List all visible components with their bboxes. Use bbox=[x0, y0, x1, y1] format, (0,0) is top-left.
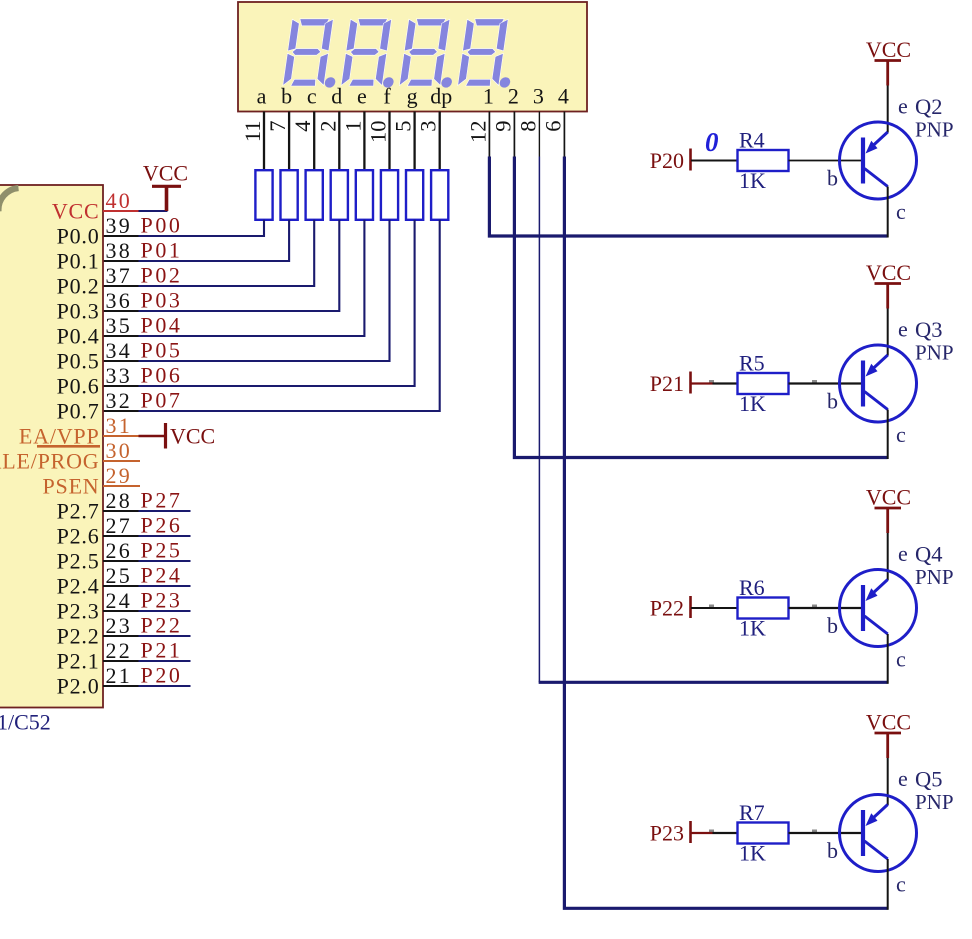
svg-text:e: e bbox=[898, 766, 908, 791]
labels e Q4 PNP b c bbox=[827, 541, 954, 672]
svg-text:P03: P03 bbox=[141, 288, 183, 313]
svg-text:1/C52: 1/C52 bbox=[0, 710, 51, 735]
svg-text:8: 8 bbox=[515, 121, 540, 132]
svg-text:b: b bbox=[827, 613, 838, 638]
wire P20 to R4 bbox=[691, 160, 738, 162]
VCC power symbol (EA/VPP) bbox=[166, 423, 216, 449]
svg-text:2: 2 bbox=[508, 84, 519, 109]
display pin numbers 11 7 4 2 1 10 5 3 (rotated) bbox=[240, 121, 441, 144]
net labels P00-P07 bbox=[141, 213, 183, 413]
display digit-select pin labels 1-4 bbox=[483, 84, 569, 109]
resistor R5 1K bbox=[738, 351, 789, 417]
svg-text:Q5: Q5 bbox=[915, 767, 943, 792]
svg-text:P0.0: P0.0 bbox=[57, 223, 100, 248]
MCU pin numbers 40-21 bbox=[106, 188, 132, 688]
svg-text:P0.1: P0.1 bbox=[57, 248, 100, 273]
svg-text:VCC: VCC bbox=[866, 485, 911, 510]
svg-text:P05: P05 bbox=[141, 338, 183, 363]
svg-text:Q2: Q2 bbox=[915, 94, 943, 119]
svg-text:P20: P20 bbox=[141, 663, 183, 688]
grey state marks bbox=[709, 605, 817, 608]
svg-text:dp: dp bbox=[430, 84, 452, 109]
svg-text:P24: P24 bbox=[141, 563, 183, 588]
svg-text:a: a bbox=[257, 84, 267, 109]
svg-text:5: 5 bbox=[391, 121, 416, 132]
resistor array (8 segment resistors) bbox=[255, 170, 448, 220]
svg-text:PNP: PNP bbox=[915, 790, 954, 814]
net labels P27-P20 bbox=[141, 488, 183, 688]
labels e Q3 PNP b c bbox=[827, 317, 954, 448]
display digit 3 (8.) bbox=[399, 19, 461, 88]
svg-text:23: 23 bbox=[106, 613, 132, 638]
wire: display pin 6 to Q5 collector bus bbox=[564, 112, 887, 909]
svg-text:34: 34 bbox=[106, 338, 132, 363]
svg-text:R4: R4 bbox=[739, 128, 765, 153]
svg-text:R6: R6 bbox=[739, 575, 765, 600]
P2.7-P2.0 pin stub wires bbox=[103, 511, 191, 686]
wire Q3 collector to bus bbox=[887, 410, 889, 460]
labels e Q2 PNP b c bbox=[827, 94, 954, 225]
wire: display pin 12 to Q2 collector bus bbox=[489, 112, 887, 237]
svg-text:P25: P25 bbox=[141, 538, 183, 563]
VCC power symbol (Q2 emitter) bbox=[866, 37, 911, 86]
svg-text:4: 4 bbox=[558, 84, 569, 109]
grey state marks bbox=[709, 830, 817, 833]
svg-text:P2.1: P2.1 bbox=[57, 648, 100, 673]
svg-text:P21: P21 bbox=[650, 371, 684, 396]
svg-text:11: 11 bbox=[240, 121, 265, 143]
port P21 bbox=[650, 371, 691, 396]
wires: resistor bottoms to P0.0-P0.7 pins bbox=[103, 220, 440, 411]
svg-text:P0.7: P0.7 bbox=[57, 398, 100, 423]
wire VCC to Q3 emitter bbox=[887, 309, 889, 356]
wire P23 to R7 bbox=[691, 832, 738, 834]
svg-text:0: 0 bbox=[705, 127, 719, 157]
svg-text:4: 4 bbox=[290, 121, 315, 132]
wire R6 to Q4 base bbox=[789, 607, 864, 609]
svg-text:P00: P00 bbox=[141, 213, 183, 238]
svg-text:b: b bbox=[281, 84, 292, 109]
svg-text:f: f bbox=[383, 84, 391, 109]
transistor Q2 PNP bbox=[840, 122, 917, 199]
svg-text:P2.0: P2.0 bbox=[57, 673, 100, 698]
svg-text:P04: P04 bbox=[141, 313, 183, 338]
svg-text:31: 31 bbox=[106, 413, 132, 438]
svg-text:PNP: PNP bbox=[915, 565, 954, 589]
svg-text:26: 26 bbox=[106, 538, 132, 563]
MCU corner arc marker bbox=[0, 188, 18, 212]
svg-text:PNP: PNP bbox=[915, 341, 954, 365]
wire Q4 collector to bus bbox=[887, 634, 889, 684]
port P22 bbox=[650, 596, 691, 621]
svg-text:c: c bbox=[307, 84, 317, 109]
logic state 0 annotation bbox=[705, 127, 719, 157]
grey state marks bbox=[709, 380, 817, 383]
wire VCC to Q4 emitter bbox=[887, 533, 889, 580]
VCC power symbol (Q5 emitter) bbox=[866, 710, 911, 759]
display digit 2 (8.) bbox=[341, 19, 403, 88]
display digit 4 (8.) bbox=[457, 19, 519, 88]
svg-text:27: 27 bbox=[106, 513, 132, 538]
svg-text:R5: R5 bbox=[739, 351, 765, 376]
svg-text:P2.6: P2.6 bbox=[57, 523, 100, 548]
svg-text:ALE/PROG: ALE/PROG bbox=[0, 448, 100, 473]
svg-text:39: 39 bbox=[106, 213, 132, 238]
svg-text:e: e bbox=[898, 317, 908, 342]
svg-text:9: 9 bbox=[490, 121, 515, 132]
wire P21 to R5 bbox=[691, 382, 738, 384]
svg-text:P2.7: P2.7 bbox=[57, 498, 100, 523]
wire: display pin 9 to Q3 collector bus bbox=[514, 112, 887, 458]
svg-text:b: b bbox=[827, 838, 838, 863]
svg-text:P2.3: P2.3 bbox=[57, 598, 100, 623]
svg-text:P21: P21 bbox=[141, 638, 183, 663]
svg-text:d: d bbox=[331, 84, 342, 109]
svg-text:P2.5: P2.5 bbox=[57, 548, 100, 573]
pin30 stub bbox=[103, 460, 140, 462]
wire P22 to R6 bbox=[691, 607, 738, 609]
svg-text:P0.6: P0.6 bbox=[57, 373, 100, 398]
MCU U1 (AT89C51/C52) body, partially off-canvas bbox=[0, 185, 103, 708]
labels e Q5 PNP b c bbox=[827, 766, 954, 897]
svg-text:VCC: VCC bbox=[143, 161, 188, 186]
wire: display pin 8 to Q4 collector bus (thin vertical) bbox=[539, 112, 888, 683]
svg-text:b: b bbox=[827, 389, 838, 414]
svg-text:VCC: VCC bbox=[866, 710, 911, 735]
transistor Q4 PNP bbox=[840, 570, 917, 647]
svg-text:P26: P26 bbox=[141, 513, 183, 538]
svg-text:1: 1 bbox=[483, 84, 494, 109]
svg-text:10: 10 bbox=[366, 121, 391, 144]
svg-text:P01: P01 bbox=[141, 238, 183, 263]
VCC power symbol (Q3 emitter) bbox=[866, 260, 911, 309]
svg-text:P22: P22 bbox=[141, 613, 183, 638]
svg-text:c: c bbox=[896, 199, 906, 224]
svg-text:1K: 1K bbox=[739, 168, 766, 193]
wire pin40 to VCC bbox=[103, 210, 168, 212]
svg-text:1: 1 bbox=[340, 121, 365, 132]
display segment pin letters a-dp bbox=[257, 84, 453, 109]
svg-text:33: 33 bbox=[106, 363, 132, 388]
svg-text:30: 30 bbox=[106, 438, 132, 463]
svg-text:29: 29 bbox=[106, 463, 132, 488]
resistor R4 1K bbox=[738, 128, 789, 194]
svg-text:1K: 1K bbox=[739, 391, 766, 416]
svg-text:40: 40 bbox=[106, 188, 132, 213]
wire R4 to Q2 base bbox=[789, 160, 864, 162]
svg-text:VCC: VCC bbox=[866, 260, 911, 285]
svg-text:c: c bbox=[896, 872, 906, 897]
svg-text:VCC: VCC bbox=[170, 424, 215, 449]
svg-text:P23: P23 bbox=[650, 821, 684, 846]
svg-text:35: 35 bbox=[106, 313, 132, 338]
display pin numbers 12 9 8 6 (rotated) bbox=[465, 121, 565, 144]
svg-text:P07: P07 bbox=[141, 388, 183, 413]
svg-text:EA/VPP: EA/VPP bbox=[19, 423, 100, 448]
resistor R7 1K bbox=[738, 800, 789, 866]
svg-text:12: 12 bbox=[465, 121, 490, 144]
svg-text:36: 36 bbox=[106, 288, 132, 313]
svg-text:b: b bbox=[827, 166, 838, 191]
wire VCC to Q5 emitter bbox=[887, 758, 889, 805]
MCU pin names bbox=[0, 198, 100, 698]
wire VCC to Q2 emitter bbox=[887, 86, 889, 133]
svg-text:P06: P06 bbox=[141, 363, 183, 388]
wire Q5 collector to bus bbox=[887, 859, 889, 910]
svg-text:32: 32 bbox=[106, 388, 132, 413]
VCC power symbol (Q4 emitter) bbox=[866, 485, 911, 534]
svg-text:25: 25 bbox=[106, 563, 132, 588]
svg-text:3: 3 bbox=[533, 84, 544, 109]
svg-text:P0.5: P0.5 bbox=[57, 348, 100, 373]
svg-text:2: 2 bbox=[315, 121, 340, 132]
port P20 bbox=[650, 148, 691, 173]
svg-text:6: 6 bbox=[540, 121, 565, 132]
overline bar on ALE/PROG bbox=[37, 445, 100, 448]
svg-text:P0.4: P0.4 bbox=[57, 323, 100, 348]
svg-text:e: e bbox=[357, 84, 367, 109]
display digit 1 (8.) bbox=[283, 19, 345, 88]
svg-text:7: 7 bbox=[265, 121, 290, 132]
svg-text:28: 28 bbox=[106, 488, 132, 513]
svg-text:37: 37 bbox=[106, 263, 132, 288]
svg-text:e: e bbox=[898, 94, 908, 119]
svg-text:22: 22 bbox=[106, 638, 132, 663]
svg-text:Q4: Q4 bbox=[915, 542, 943, 567]
VCC power symbol (MCU pin 40) bbox=[143, 161, 188, 212]
svg-text:P20: P20 bbox=[650, 148, 684, 173]
svg-text:P2.2: P2.2 bbox=[57, 623, 100, 648]
svg-text:P22: P22 bbox=[650, 596, 684, 621]
svg-text:c: c bbox=[896, 422, 906, 447]
svg-text:R7: R7 bbox=[739, 800, 765, 825]
svg-text:P0.2: P0.2 bbox=[57, 273, 100, 298]
MCU part label 1/C52 bbox=[0, 710, 51, 735]
svg-text:g: g bbox=[407, 84, 418, 109]
port P23 bbox=[650, 821, 691, 846]
display segment pin stubs (wires) bbox=[264, 112, 440, 171]
svg-text:P27: P27 bbox=[141, 488, 183, 513]
svg-text:P02: P02 bbox=[141, 263, 183, 288]
svg-text:PSEN: PSEN bbox=[43, 473, 100, 498]
svg-text:1K: 1K bbox=[739, 616, 766, 641]
resistor R6 1K bbox=[738, 575, 789, 641]
svg-text:VCC: VCC bbox=[52, 198, 100, 223]
svg-text:e: e bbox=[898, 541, 908, 566]
svg-text:P23: P23 bbox=[141, 588, 183, 613]
wire R7 to Q5 base bbox=[789, 832, 864, 834]
svg-text:1K: 1K bbox=[739, 841, 766, 866]
svg-text:38: 38 bbox=[106, 238, 132, 263]
svg-text:P2.4: P2.4 bbox=[57, 573, 100, 598]
wire Q2 collector to bus bbox=[887, 187, 889, 238]
svg-text:Q3: Q3 bbox=[915, 317, 943, 342]
svg-text:P0.3: P0.3 bbox=[57, 298, 100, 323]
svg-text:VCC: VCC bbox=[866, 37, 911, 62]
wire pin31 EA/VPP to VCC bbox=[103, 435, 165, 437]
transistor Q5 PNP bbox=[840, 795, 917, 872]
svg-text:21: 21 bbox=[106, 663, 132, 688]
svg-text:c: c bbox=[896, 647, 906, 672]
pin29 stub bbox=[103, 485, 140, 487]
svg-text:3: 3 bbox=[416, 121, 441, 132]
svg-text:PNP: PNP bbox=[915, 118, 954, 142]
display DS1 body bbox=[238, 2, 587, 112]
wire R5 to Q3 base bbox=[789, 382, 864, 384]
svg-text:24: 24 bbox=[106, 588, 132, 613]
transistor Q3 PNP bbox=[840, 345, 917, 422]
